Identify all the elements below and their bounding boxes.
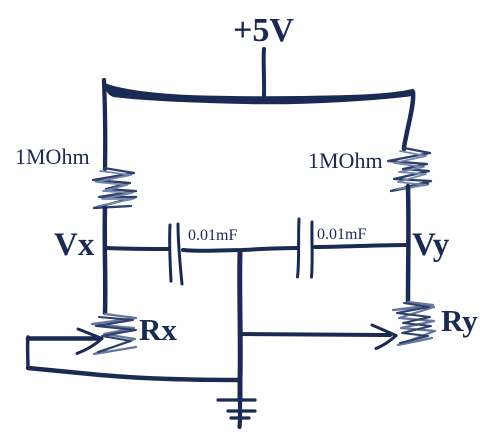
wire right vertical (bus to R2) — [404, 92, 413, 149]
wire C1 to C2 through center junction — [183, 248, 297, 251]
svg-text:Ry: Ry — [441, 303, 478, 338]
svg-text:Vx: Vx — [54, 227, 95, 263]
wire R1 to Rx vertical through Vx node — [102, 208, 107, 313]
wire center to Ry arrow — [240, 334, 390, 335]
svg-text:0.01mF: 0.01mF — [188, 227, 237, 244]
wire left vertical (bus to R1) — [104, 80, 105, 169]
svg-text:+5V: +5V — [233, 12, 294, 49]
wire +5V stem — [262, 49, 266, 96]
wire feedback left hook — [26, 337, 30, 368]
wire Vx to C1 — [108, 248, 168, 249]
resistor R2 (1MOhm right) — [388, 148, 431, 191]
ground — [218, 396, 255, 427]
arrow into Rx — [28, 336, 97, 341]
resistor Rx (zigzag scribble) — [92, 314, 136, 354]
wire center vertical to ground — [237, 252, 243, 398]
capacitor C2 left plate — [298, 219, 300, 277]
svg-text:0.01mF: 0.01mF — [317, 226, 366, 243]
wire R2 to Ry vertical through Vy node — [406, 186, 411, 302]
svg-text:1MOhm: 1MOhm — [15, 144, 90, 169]
resistor Ry (zigzag scribble) — [393, 302, 435, 345]
svg-text:Rx: Rx — [139, 312, 177, 347]
resistor R1 (1MOhm left) — [93, 168, 136, 208]
svg-text:1MOhm: 1MOhm — [308, 148, 383, 173]
capacitor C1 right plate — [178, 224, 182, 284]
capacitor C1 left plate — [170, 225, 171, 281]
wire top bus — [105, 84, 414, 104]
svg-text:Vy: Vy — [412, 227, 450, 263]
arrow into Ry — [372, 325, 396, 336]
wire C2 to Vy — [315, 245, 408, 247]
wire feedback bottom run — [28, 368, 240, 380]
capacitor C2 right plate — [310, 222, 314, 277]
